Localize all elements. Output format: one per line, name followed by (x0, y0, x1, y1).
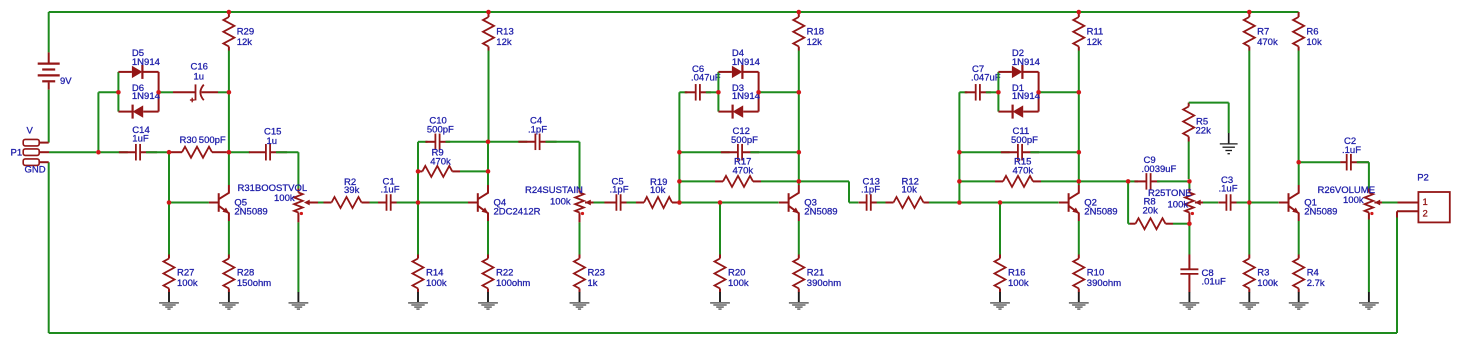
wire boost pot to ground (297, 222, 299, 292)
P1 pin V lead (39, 142, 49, 144)
svg-text:2N5089: 2N5089 (234, 207, 267, 218)
transistor Q2 2N5089 (1059, 202, 1069, 204)
svg-text:1k: 1k (588, 278, 598, 289)
svg-text:100k: 100k (1343, 195, 1364, 206)
svg-text:100k: 100k (728, 278, 749, 289)
wire diode box to Q3 collector node (759, 91, 799, 93)
svg-text:R21: R21 (807, 268, 824, 279)
pot wiper dot (581, 212, 584, 215)
svg-text:1N914: 1N914 (132, 91, 160, 102)
resistor R11 12k (1078, 12, 1080, 17)
wire C5 to R19 (627, 202, 637, 204)
svg-text:100ohm: 100ohm (496, 278, 530, 289)
wire tone wiper to C3 (1195, 202, 1203, 204)
potentiometer R26 VOLUME 100k (1368, 189, 1370, 193)
node C9/R8 branch (1126, 179, 1131, 184)
node R7 top rail (1247, 10, 1252, 15)
svg-text:470k: 470k (733, 165, 754, 176)
svg-text:.1pF: .1pF (610, 185, 629, 196)
wire collector vertical mid Q2 (1078, 152, 1080, 185)
resistor R13 12k (488, 12, 490, 17)
wire C14 to R30 (146, 151, 167, 153)
node diode box left mid (116, 90, 121, 95)
node R18 top rail (797, 10, 802, 15)
wire diode-box right vertical (1038, 72, 1040, 112)
capacitor C9 .0039uF (1128, 180, 1138, 182)
svg-text:.1uF: .1uF (381, 185, 400, 196)
svg-text:2N5089: 2N5089 (1304, 207, 1337, 218)
transistor Q4 2DC2412R (468, 202, 478, 204)
capacitor C16 1u polarized (159, 91, 173, 93)
svg-text:500pF: 500pF (1011, 135, 1038, 146)
svg-text:500pF: 500pF (427, 125, 454, 136)
capacitor C5 .1pF (615, 194, 617, 211)
node Q1 base junction (1247, 200, 1252, 205)
node C12 right junction (797, 150, 802, 155)
resistor R7 470k (1248, 12, 1250, 17)
diode D2 (998, 71, 1012, 73)
wire R12 to Q2 base node (929, 202, 957, 204)
wire Q3 base node vertical (678, 92, 680, 202)
capacitor C2 .1uF (1299, 161, 1341, 163)
wire C13 to R12 (877, 202, 886, 204)
svg-text:22k: 22k (1196, 126, 1212, 137)
wire sustain pot to R23 (579, 222, 581, 254)
resistor R2 39k (324, 202, 332, 204)
svg-text:R29: R29 (237, 27, 254, 38)
resistor R10 390ohm (1078, 221, 1080, 255)
wire C15 to boost pot top (276, 151, 298, 153)
wire R2 to C1 (370, 202, 379, 204)
capacitor C11 500pF (959, 151, 1009, 153)
wire sustain wiper to C5 (585, 202, 594, 204)
svg-text:R23: R23 (588, 268, 605, 279)
node C11 left junction (957, 150, 962, 155)
ground R5 (thin style) (1228, 133, 1230, 143)
P1 pin 2 lead (39, 151, 49, 153)
svg-text:1N914: 1N914 (732, 91, 760, 102)
potentiometer R31 BOOSTVOL 100k (297, 189, 299, 193)
svg-text:V: V (27, 126, 34, 137)
svg-text:12k: 12k (807, 37, 823, 48)
diode D4 (718, 71, 732, 73)
wire diode-box right vertical (758, 72, 760, 112)
wire bottom ground rail (49, 332, 1397, 334)
pot wiper dot (300, 212, 303, 215)
svg-text:100k: 100k (426, 278, 447, 289)
resistor R17 470k (679, 180, 715, 182)
resistor R29 12k (228, 12, 230, 17)
wire R5 top to ground (1189, 102, 1229, 104)
node C14-R30 junction (167, 150, 172, 155)
svg-text:R10: R10 (1087, 268, 1104, 279)
wire C1 to Q4 base junction (397, 202, 416, 204)
resistor R19 10k (636, 202, 644, 204)
svg-text:100k: 100k (1257, 278, 1278, 289)
node Q2 base node bottom (957, 200, 962, 205)
resistor R23 1k (579, 255, 581, 259)
pot wiper dot (1370, 212, 1373, 215)
svg-text:10k: 10k (650, 185, 666, 196)
node Q4 collector top junction (486, 140, 491, 145)
resistor R27 100k (168, 203, 170, 255)
wire Q2 base node vertical (958, 92, 960, 202)
capacitor C15 1u (229, 151, 250, 153)
resistor R16 100k (999, 203, 1001, 255)
svg-text:470k: 470k (1013, 165, 1034, 176)
node diode box right mid (156, 90, 161, 95)
svg-text:1u: 1u (194, 72, 205, 83)
capacitor C4 .1pF (488, 141, 527, 143)
capacitor C10 500pF (418, 141, 428, 143)
svg-text:.0039uF: .0039uF (1142, 164, 1177, 175)
node C11 right junction (1077, 150, 1082, 155)
wire diode-box left vertical (117, 72, 119, 112)
transistor Q1 2N5089 (1279, 202, 1289, 204)
wire Q4 base wire (418, 202, 469, 204)
svg-text:12k: 12k (1087, 37, 1103, 48)
wire left ground drop from P1 GND (48, 162, 50, 333)
resistor R14 100k (417, 203, 419, 255)
node Q2 collector upper junction (1077, 90, 1082, 95)
svg-text:R27: R27 (177, 268, 194, 279)
resistor R6 10k (1298, 12, 1300, 17)
wire C6 to diode box (706, 91, 719, 93)
node R17 right junction / Q3 collector tap (797, 179, 802, 184)
node Q4 base junction (416, 200, 421, 205)
node R15 right junction / Q2 collector tap (1077, 179, 1082, 184)
wire C4 to sustain pot (546, 141, 580, 143)
svg-text:R6: R6 (1306, 27, 1318, 38)
node Q5 base junction (167, 200, 172, 205)
svg-text:100k: 100k (550, 197, 571, 208)
wire Q2 base row (959, 202, 1058, 204)
svg-text:39k: 39k (344, 185, 360, 196)
capacitor C6 .047uF (679, 91, 687, 93)
wire C2 to volume pot (1357, 161, 1369, 163)
node D-box right mid Q3 (756, 90, 761, 95)
svg-text:R30: R30 (180, 135, 197, 146)
wire diode-box right vertical (158, 72, 160, 112)
wire Q2 collector vertical upper (1078, 92, 1080, 152)
svg-text:1N914: 1N914 (1012, 57, 1040, 68)
capacitor C1 .1uF (386, 194, 388, 211)
transistor Q5 2N5089 (209, 202, 219, 204)
svg-text:500pF: 500pF (199, 135, 226, 146)
svg-text:12k: 12k (496, 37, 512, 48)
resistor R3 100k (1248, 203, 1250, 255)
svg-text:470k: 470k (1257, 37, 1278, 48)
wire Q4 base node up to feedback rows (417, 142, 419, 203)
svg-text:2: 2 (1423, 208, 1428, 219)
svg-text:R28: R28 (237, 268, 254, 279)
wire V+ top rail (49, 11, 1299, 13)
wire Q3 collector vertical upper (798, 92, 800, 152)
P1 pin GND lead (39, 161, 49, 163)
svg-text:R25TONE: R25TONE (1148, 188, 1192, 199)
svg-text:100k: 100k (177, 278, 198, 289)
wire C3 to Q1 base junction (1237, 202, 1248, 204)
node R30 right junction / Q5 collector node (227, 150, 232, 155)
diode D6 (118, 111, 131, 113)
wire Q3 base row (679, 202, 778, 204)
svg-text:470k: 470k (430, 156, 451, 167)
svg-text:9V: 9V (60, 76, 72, 87)
node D-box left mid Q3 (716, 90, 721, 95)
svg-text:P1: P1 (11, 148, 23, 159)
svg-text:.1pF: .1pF (528, 125, 547, 136)
wire diode-box left vertical (997, 72, 999, 112)
svg-text:.1pF: .1pF (861, 185, 880, 196)
svg-text:R3: R3 (1257, 268, 1269, 279)
P2 pin2 lead (1397, 210, 1418, 212)
node tone pot bottom junction (1187, 221, 1192, 226)
svg-text:1N914: 1N914 (132, 57, 160, 68)
svg-text:500pF: 500pF (731, 135, 758, 146)
wire C9 to tone pot node (1157, 180, 1187, 182)
svg-text:.1uF: .1uF (1219, 184, 1238, 195)
svg-text:1u: 1u (267, 136, 278, 147)
wire R31 wiper to R2 (310, 202, 318, 204)
resistor R22 100ohm (487, 221, 489, 255)
capacitor C8 .01uF (1188, 224, 1190, 255)
pot wiper dot (1191, 212, 1194, 215)
wire base junction to Q5 (169, 202, 209, 204)
resistor R8 20k (1130, 223, 1136, 225)
svg-text:2.7k: 2.7k (1307, 278, 1325, 289)
node D-box right mid Q2 (1036, 90, 1041, 95)
node C12 left junction (677, 150, 682, 155)
wire R8 to tone bottom node (1173, 223, 1187, 225)
svg-text:2DC2412R: 2DC2412R (494, 207, 541, 218)
svg-text:2N5089: 2N5089 (1084, 207, 1117, 218)
svg-text:.1uF: .1uF (1342, 145, 1361, 156)
wire R8 branch down (1127, 181, 1129, 223)
wire Q2 collector tap to tone node (1079, 180, 1126, 182)
diode D3 (718, 111, 731, 113)
wire diode box to Q2 collector node (1039, 91, 1079, 93)
resistor R28 150ohm (228, 221, 230, 255)
node R9 right junction (486, 169, 491, 174)
wire input node down to Q5 base (168, 152, 170, 202)
wire C7 to diode box (986, 91, 999, 93)
wire Q5 collector up (228, 152, 230, 185)
wire C16 node down to signal row (228, 92, 230, 152)
capacitor C14 1uF (98, 151, 127, 153)
node R11 top rail (1077, 10, 1082, 15)
capacitor C12 500pF (679, 151, 729, 153)
resistor R20 100k (719, 203, 721, 255)
resistor R15 470k (959, 180, 995, 182)
diode D1 (998, 111, 1011, 113)
wire Q1 collector up (1298, 162, 1300, 185)
resistor R4 2.7k (1298, 221, 1300, 255)
node D-box left mid Q2 (996, 90, 1001, 95)
potentiometer R24 SUSTAIN 100k (579, 189, 581, 193)
svg-text:150ohm: 150ohm (237, 278, 271, 289)
connector P2 (1418, 192, 1449, 222)
wire volume pot to ground (1368, 220, 1370, 293)
svg-text:P2: P2 (1417, 172, 1429, 183)
svg-text:R18: R18 (807, 27, 824, 38)
battery 9V (48, 12, 50, 52)
wire P2 pin2 to bottom rail (1396, 218, 1398, 334)
node Q3 base node bottom (677, 200, 682, 205)
svg-text:.047uF: .047uF (971, 73, 1001, 84)
wire Q1 base wire (1249, 202, 1278, 204)
svg-text:390ohm: 390ohm (807, 278, 841, 289)
svg-text:1: 1 (1423, 197, 1428, 208)
svg-text:1N914: 1N914 (1012, 91, 1040, 102)
connector P1 (23, 139, 39, 146)
svg-text:R4: R4 (1307, 268, 1319, 279)
svg-text:1N914: 1N914 (732, 57, 760, 68)
diode D5 (118, 71, 131, 73)
wire Q3 collector tap to C13 (799, 180, 849, 182)
node R13 top rail (486, 10, 491, 15)
svg-text:R7: R7 (1257, 27, 1269, 38)
resistor R30 500pF (171, 151, 182, 153)
svg-text:GND: GND (25, 164, 46, 175)
node R17 left junction (677, 179, 682, 184)
resistor R21 390ohm (798, 221, 800, 255)
wire volume wiper to P2 pin1 (1374, 202, 1382, 204)
node R15 left junction (957, 179, 962, 184)
svg-text:R22: R22 (496, 268, 513, 279)
resistor R18 12k (798, 12, 800, 17)
svg-text:100k: 100k (1168, 200, 1189, 211)
svg-text:12k: 12k (237, 37, 253, 48)
node R20 branch (718, 200, 723, 205)
wire P1 pin2 to input node (49, 151, 96, 153)
node R9 left junction (416, 169, 421, 174)
resistor R5 22k (1188, 103, 1190, 107)
svg-text:R31BOOSTVOL: R31BOOSTVOL (238, 183, 308, 194)
svg-text:R13: R13 (496, 27, 513, 38)
wire collector node down to Q4 (487, 142, 489, 185)
transistor Q3 2N5089 (779, 202, 789, 204)
capacitor C3 .1uF (1225, 194, 1227, 211)
potentiometer R25 TONE 100k (1188, 181, 1190, 188)
svg-text:R11: R11 (1087, 27, 1104, 38)
svg-text:10k: 10k (1306, 37, 1322, 48)
svg-text:2N5089: 2N5089 (804, 207, 837, 218)
wire C10 to collector node (446, 141, 487, 143)
resistor R9 470k (418, 170, 422, 172)
wire R9 to collector node (460, 170, 486, 172)
wire collector vertical mid (798, 152, 800, 181)
resistor R12 10k (886, 202, 894, 204)
capacitor C7 .047uF (959, 91, 967, 93)
svg-text:390ohm: 390ohm (1087, 278, 1121, 289)
node Q3 collector upper junction (797, 90, 802, 95)
svg-text:1uF: 1uF (132, 134, 149, 145)
node input junction (96, 150, 101, 155)
node C16-R29 junction (227, 90, 232, 95)
wire input node up to diode loop (97, 92, 99, 152)
ground under R31 (297, 292, 299, 302)
svg-text:R14: R14 (426, 268, 443, 279)
svg-text:R16: R16 (1008, 268, 1025, 279)
svg-text:20k: 20k (1143, 206, 1159, 217)
svg-text:.047uF: .047uF (691, 73, 721, 84)
node tone pot top junction (1187, 179, 1192, 184)
node R16 branch (998, 200, 1003, 205)
svg-text:.01uF: .01uF (1202, 277, 1226, 288)
capacitor C13 .1pF (866, 194, 868, 211)
svg-text:100k: 100k (274, 193, 295, 204)
node R29 top rail (227, 10, 232, 15)
wire diode-box left vertical (717, 72, 719, 112)
svg-text:100k: 100k (1008, 278, 1029, 289)
svg-text:R20: R20 (728, 268, 745, 279)
node Q1 collector junction (1296, 160, 1301, 165)
svg-text:R24SUSTAIN: R24SUSTAIN (525, 185, 583, 196)
svg-text:10k: 10k (902, 185, 918, 196)
